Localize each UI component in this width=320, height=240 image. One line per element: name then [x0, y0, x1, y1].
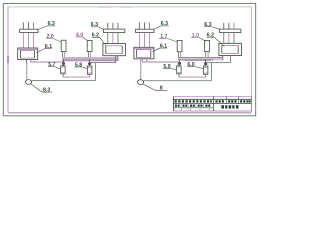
- svg-text:5.9: 5.9: [163, 64, 170, 70]
- bus wire (left group): [62, 56, 118, 61]
- inner frame border top purple dashes: [98, 6, 112, 8]
- title block row2 text blobs (right, larger): [221, 105, 238, 108]
- E2 to J2 lead wires: [108, 33, 118, 44]
- resistor R2 (item 4.0): [87, 40, 92, 51]
- wire J3 stub to fuse F3 top (purple run): [142, 61, 178, 63]
- resistor R4 (item 1.0): [205, 40, 210, 51]
- title block row1 text blobs (right): [215, 100, 250, 102]
- E3 top prongs: [139, 22, 149, 29]
- label 6.1 (J3) with leader: [153, 44, 168, 52]
- E4 top prongs: [224, 23, 234, 29]
- svg-text:5.7: 5.7: [48, 62, 55, 68]
- label 4.0 (R2) with leader: [76, 32, 89, 41]
- outer frame border: [3, 3, 255, 115]
- E3 to J3 lead wires: [139, 33, 149, 49]
- wire J1 stub to fuse F1 top (purple run): [31, 61, 62, 63]
- wire X1 to node A (bottom run): [32, 63, 96, 81]
- heater bar E3 (item 6.3): [136, 29, 154, 32]
- svg-text:1.0: 1.0: [192, 33, 199, 39]
- label 6.2 (J4) with leader: [207, 33, 225, 47]
- label 6.3 (E1) with leader: [38, 21, 55, 29]
- label 5.9 (F3) with leader: [163, 64, 177, 70]
- wire F2 top to J2 (green run): [90, 56, 116, 63]
- title block row2 text blobs (left): [175, 105, 211, 107]
- label 5.7 (F1) with leader: [48, 62, 61, 69]
- fuse F1 (item 5.7): [61, 60, 65, 78]
- label 6.3 (E3) with leader: [154, 21, 169, 29]
- label 6.0 (F4) with leader: [187, 62, 203, 69]
- heater bar E2 (item 6.3 right of left group): [104, 29, 125, 32]
- label 6.1 (J1) with leader: [36, 44, 52, 53]
- label 6.2 (J2) with leader: [92, 33, 106, 46]
- label 1.0 (R4) with leader: [191, 33, 206, 41]
- E1 to J1 lead wires: [23, 33, 33, 49]
- connector box J1 (item 6.1): [18, 48, 38, 60]
- inner frame border top: [8, 6, 252, 8]
- svg-text:6.3: 6.3: [161, 21, 168, 27]
- svg-text:2.0: 2.0: [47, 34, 54, 40]
- J3 bottom stubs: [142, 59, 147, 62]
- svg-text:6.0: 6.0: [187, 62, 194, 68]
- wire F3 bottom to F4 bottom: [179, 75, 206, 78]
- svg-text:6.2: 6.2: [92, 33, 99, 39]
- wire J1 to connector ring X1: [26, 60, 28, 80]
- R4 legs to bus: [206, 52, 208, 57]
- svg-text:5.8: 5.8: [75, 62, 82, 68]
- connector ring X1: [26, 80, 32, 85]
- resistor R3 (item 1.7): [177, 40, 182, 51]
- connector box J4 (item 6.2): [219, 43, 242, 55]
- title block row1 text blobs (left): [175, 100, 212, 102]
- wire F4 top to J4 (green run): [206, 56, 231, 63]
- heater bar E1 (item 6.3): [20, 29, 38, 32]
- svg-text:4.0: 4.0: [76, 32, 83, 38]
- label 8 (X2) with leader: [143, 84, 167, 91]
- wire X2 to node B (bottom run): [144, 62, 212, 81]
- inner frame border left centering mark: [7, 56, 9, 63]
- connector box J2 (item 6.2): [103, 44, 126, 56]
- J1 bottom stubs: [26, 60, 31, 63]
- R1 legs to bus: [62, 52, 64, 58]
- E2 top prongs: [108, 23, 118, 29]
- fuse F3 (item 5.9): [177, 60, 181, 78]
- inner frame border bottom: [8, 111, 251, 113]
- E1 top prongs: [23, 22, 33, 29]
- heater bar E4 (item 6.3 right of right group): [220, 29, 241, 32]
- fuse F2 (item 5.8): [87, 60, 92, 75]
- label 8.3 (X1) with leader: [31, 84, 52, 93]
- svg-text:6.2: 6.2: [207, 33, 214, 39]
- label 6.3 (E4) with leader: [204, 22, 220, 29]
- E4 to J4 lead wires: [224, 33, 234, 44]
- svg-text:8.3: 8.3: [43, 87, 50, 93]
- label 1.7 (R3) with leader: [159, 34, 177, 42]
- title block outline: [173, 96, 251, 111]
- wire J3 to connector ring X2: [140, 59, 142, 80]
- connector ring X2: [138, 80, 144, 85]
- fuse F4 (item 6.0): [203, 60, 208, 75]
- bus wire (right group): [178, 56, 223, 61]
- svg-text:6.1: 6.1: [160, 44, 167, 50]
- connector box J3 (item 6.1): [134, 47, 154, 59]
- svg-text:6.3: 6.3: [91, 22, 98, 28]
- inner frame border left: [7, 7, 9, 113]
- label 6.3 (E2) with leader: [91, 22, 104, 29]
- title block left column dividers: [181, 104, 210, 111]
- resistor R1 (item 2.0): [61, 40, 66, 51]
- title block right column dividers: [227, 96, 239, 103]
- R2 legs to bus: [88, 52, 90, 57]
- wire F1 bottom to F2 bottom: [63, 75, 90, 78]
- label 2.0 (R1) with leader: [46, 34, 61, 42]
- svg-text:6.3: 6.3: [48, 21, 55, 27]
- label 5.8 (F2) with leader: [75, 62, 88, 68]
- svg-text:6.3: 6.3: [204, 22, 211, 28]
- svg-text:6.1: 6.1: [45, 44, 52, 50]
- svg-text:1.7: 1.7: [160, 34, 167, 40]
- inner frame border right: [250, 7, 252, 113]
- R3 legs to bus: [178, 52, 180, 57]
